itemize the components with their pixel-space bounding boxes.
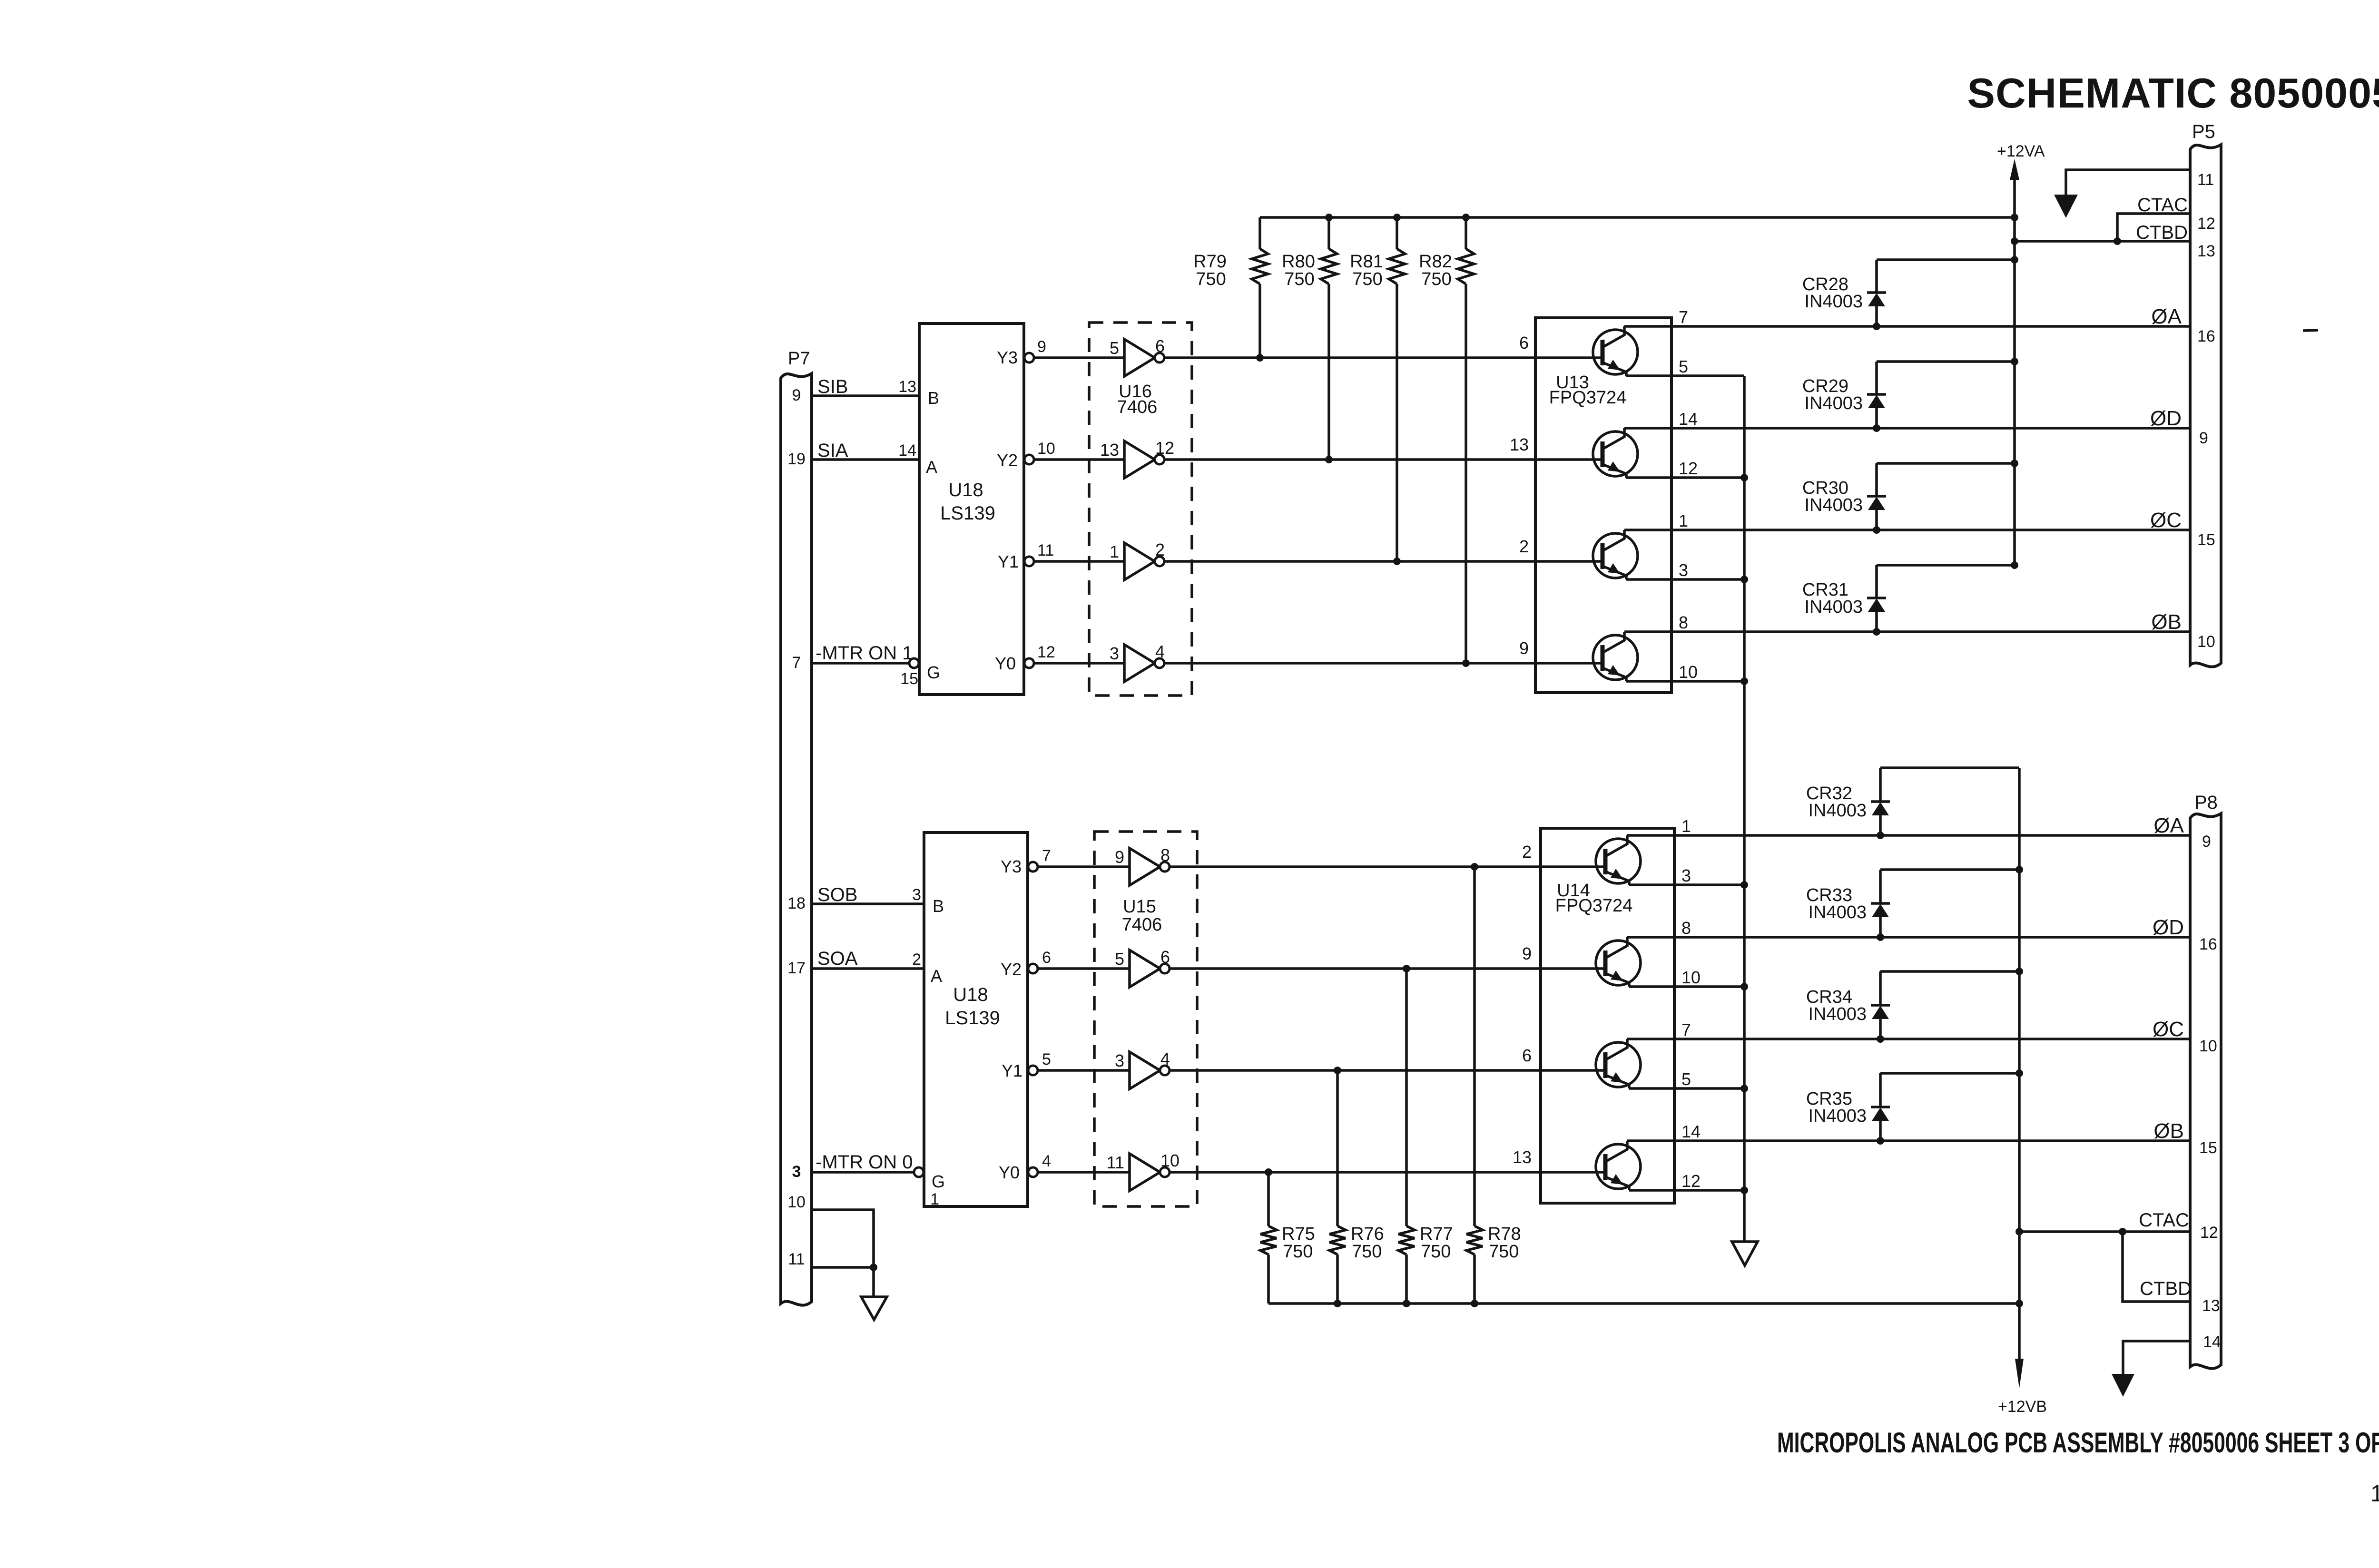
- U18a pin numbers: [898, 338, 1055, 688]
- svg-text:1: 1: [1679, 511, 1688, 530]
- svg-text:5: 5: [1115, 949, 1124, 969]
- svg-text:6: 6: [1519, 333, 1529, 353]
- svg-text:750: 750: [1283, 1242, 1313, 1262]
- U14-b emitter pin: [1681, 968, 1701, 987]
- page number: [2370, 1481, 2379, 1507]
- junction R75 top: [1265, 1168, 1272, 1176]
- svg-text:11: 11: [1107, 1153, 1124, 1172]
- svg-text:7: 7: [792, 654, 801, 672]
- wire P7 pin11: [812, 1266, 874, 1269]
- svg-text:3: 3: [1681, 866, 1691, 885]
- svg-text:2: 2: [1522, 842, 1532, 862]
- U14-d emitter pin: [1681, 1171, 1701, 1191]
- U18a Y2 output bubble: [1024, 455, 1034, 464]
- diode CR31: [1802, 565, 1886, 632]
- svg-text:U18: U18: [953, 984, 988, 1005]
- svg-text:CTAC: CTAC: [2139, 1210, 2189, 1231]
- wire SOA: [812, 967, 924, 970]
- wire U14-a emitter: [1629, 883, 1744, 886]
- svg-text:7: 7: [1042, 847, 1051, 865]
- svg-text:11: 11: [1037, 541, 1054, 559]
- wire U13-b emitter: [1626, 476, 1744, 479]
- svg-text:750: 750: [1421, 1242, 1451, 1262]
- wire U18a Y0 to U16 input: [1034, 662, 1124, 665]
- inverter U16-a: [1124, 339, 1164, 376]
- P5 phase labels: [2150, 305, 2182, 634]
- wire to ground P7: [872, 1267, 875, 1297]
- U14-a collector pin: [1681, 816, 1691, 836]
- svg-text:B: B: [928, 388, 939, 408]
- svg-text:IN4003: IN4003: [1804, 495, 1863, 515]
- U18a Y1 output bubble: [1024, 557, 1034, 566]
- transistor U14-b: [1596, 937, 1641, 987]
- wire U18b Y0 to U15 input: [1038, 1171, 1130, 1174]
- junction CR34 anode: [1877, 1035, 1884, 1043]
- svg-text:6: 6: [1160, 947, 1170, 967]
- hex inverter U15 (dashed outline): [1094, 832, 1197, 1206]
- svg-text:B: B: [933, 896, 944, 916]
- junction CR33 anode: [1877, 933, 1884, 941]
- transistor array U14 (box): [1541, 828, 1674, 1203]
- U13-d emitter pin: [1679, 662, 1698, 682]
- wire -MTR ON 1: [812, 662, 909, 665]
- resistor R78: [1466, 867, 1521, 1303]
- node CTBD (P5): [2136, 222, 2188, 243]
- svg-text:12: 12: [2200, 1224, 2218, 1242]
- junction CR30 anode: [1873, 526, 1880, 534]
- U14-b collector pin: [1681, 918, 1691, 938]
- wire CR34 cathode to +12VB: [1880, 970, 2019, 973]
- inverter U16-d: [1124, 645, 1164, 682]
- svg-text:6: 6: [1042, 949, 1051, 967]
- svg-text:IN4003: IN4003: [1808, 1106, 1867, 1126]
- wire U18b Y2 to U15 input: [1038, 967, 1130, 970]
- svg-text:G: G: [927, 663, 940, 682]
- svg-text:12: 12: [1679, 459, 1698, 478]
- svg-text:R80: R80: [1282, 252, 1315, 272]
- svg-text:7: 7: [1679, 307, 1688, 327]
- wire U16 output row2 to U13 base: [1164, 458, 1602, 461]
- U13-b base pin: [1510, 435, 1529, 454]
- svg-text:FPQ3724: FPQ3724: [1549, 388, 1627, 408]
- inverter U16-c: [1124, 543, 1164, 580]
- junction CR35 anode: [1877, 1137, 1884, 1145]
- resistor R75: [1260, 1172, 1315, 1303]
- svg-text:3: 3: [912, 886, 921, 904]
- U18a input letters: [926, 388, 940, 682]
- svg-text:ØB: ØB: [2153, 1119, 2184, 1143]
- junction CR31 cathode rail: [2011, 561, 2018, 569]
- P5 pin numbers: [2197, 171, 2215, 651]
- junction R80 top: [1325, 214, 1333, 221]
- U18a G input bubble: [909, 658, 919, 668]
- U14-a base pin: [1522, 842, 1532, 862]
- svg-text:4: 4: [1160, 1049, 1170, 1068]
- wire U13-a collector (ØA) to P5: [1624, 325, 2190, 328]
- wire +12VA resistor bus: [1260, 216, 2015, 219]
- svg-text:10: 10: [1160, 1151, 1180, 1170]
- resistor R82: [1419, 217, 1474, 663]
- svg-text:14: 14: [1679, 409, 1698, 429]
- wire CR35 cathode to +12VB: [1880, 1072, 2019, 1075]
- svg-text:16: 16: [2197, 327, 2215, 345]
- resistor R76: [1329, 1070, 1384, 1303]
- node SIB: [817, 376, 848, 397]
- junction P7 pin11: [870, 1264, 877, 1271]
- wire U16 output row3 to U13 base: [1164, 560, 1602, 563]
- svg-text:12: 12: [1037, 643, 1055, 661]
- svg-text:2: 2: [912, 951, 921, 969]
- hex inverter U16 (dashed outline): [1089, 323, 1192, 696]
- svg-text:R82: R82: [1419, 252, 1452, 272]
- wire U18b Y1 to U15 input: [1038, 1069, 1130, 1072]
- U18b Y3 output bubble: [1028, 862, 1038, 872]
- junction CR32 anode: [1877, 832, 1884, 839]
- wire U18a Y2 to U16 input: [1034, 458, 1124, 461]
- wire U14-c emitter: [1629, 1087, 1744, 1090]
- wire CR31 cathode to +12VA: [1877, 564, 2015, 567]
- junction R80 bottom: [1325, 456, 1333, 463]
- svg-text:10: 10: [2197, 633, 2215, 651]
- svg-text:Y2: Y2: [997, 451, 1018, 470]
- svg-text:2: 2: [1519, 537, 1529, 556]
- diode CR35: [1806, 1073, 1890, 1141]
- wire -MTR ON 0: [812, 1171, 914, 1174]
- U13-c emitter pin: [1679, 560, 1688, 580]
- svg-text:R79: R79: [1193, 252, 1227, 272]
- svg-text:Y0: Y0: [999, 1163, 1020, 1182]
- +12VA supply: [1997, 142, 2045, 564]
- svg-text:6: 6: [1155, 336, 1165, 356]
- svg-text:16: 16: [2199, 935, 2217, 953]
- wire CR30 cathode to +12VA: [1877, 462, 2015, 465]
- svg-text:Y3: Y3: [1001, 857, 1022, 876]
- svg-text:15: 15: [2199, 1139, 2217, 1157]
- wire U16 output row4 to U13 base: [1164, 662, 1602, 665]
- wire U14-a collector (ØA) to P8: [1627, 834, 2190, 837]
- U18b G input bubble: [914, 1167, 924, 1177]
- wire U14-c collector (ØC) to P8: [1627, 1038, 2190, 1040]
- svg-text:10: 10: [1037, 440, 1055, 458]
- svg-text:1: 1: [1110, 542, 1119, 561]
- junction CTAC jog top: [2119, 1228, 2126, 1235]
- ground (emitters): [1732, 1242, 1758, 1265]
- junction CTAC/CTBD P5: [2114, 237, 2121, 245]
- transistor array U13 (box): [1535, 318, 1671, 693]
- P7 pin numbers: [787, 386, 806, 1268]
- junction CR35 cathode rail: [2015, 1069, 2023, 1077]
- inverter U15-a: [1130, 848, 1170, 885]
- wire U18b Y3 to U15 input: [1038, 865, 1130, 868]
- junction CR28 cathode rail: [2011, 256, 2018, 264]
- svg-text:ØA: ØA: [2151, 305, 2182, 328]
- svg-text:10: 10: [787, 1193, 806, 1211]
- svg-text:14: 14: [2203, 1333, 2221, 1351]
- svg-text:IN4003: IN4003: [1808, 1004, 1867, 1024]
- wire P8 pin14 (+12V in): [2123, 1341, 2190, 1374]
- wire CTAC P5: [2117, 214, 2190, 241]
- node SOA: [817, 948, 858, 969]
- wire U13-c emitter: [1626, 578, 1744, 581]
- ground (P7): [861, 1297, 887, 1320]
- svg-text:750: 750: [1489, 1242, 1519, 1262]
- connector P8: [2190, 792, 2221, 1369]
- U16-d pin numbers: [1110, 642, 1165, 663]
- junction R82 bottom: [1462, 659, 1470, 667]
- svg-text:750: 750: [1352, 1242, 1382, 1262]
- U13-d collector pin: [1679, 613, 1688, 632]
- wire CR29 cathode to +12VA: [1877, 360, 2015, 363]
- svg-text:12: 12: [2197, 215, 2215, 233]
- svg-text:Y2: Y2: [1001, 960, 1022, 979]
- wire CTAC P8: [2019, 1230, 2190, 1233]
- svg-text:MICROPOLIS ANALOG PCB ASSEMBLY: MICROPOLIS ANALOG PCB ASSEMBLY #8050006 …: [1777, 1427, 2379, 1459]
- svg-text:-MTR ON 1: -MTR ON 1: [816, 643, 913, 664]
- junction R81 bottom: [1393, 558, 1401, 565]
- U13-a collector pin: [1679, 307, 1688, 327]
- wire U13-a emitter: [1626, 374, 1744, 377]
- svg-text:7406: 7406: [1122, 915, 1162, 935]
- svg-text:9: 9: [792, 386, 801, 404]
- U13-d base pin: [1519, 638, 1529, 658]
- svg-text:11: 11: [2197, 171, 2214, 189]
- svg-text:11: 11: [788, 1250, 805, 1268]
- decoder U18 (bottom half): [924, 833, 1028, 1206]
- svg-text:8: 8: [1679, 613, 1688, 632]
- U14-c base pin: [1522, 1046, 1532, 1065]
- wire CTBD P5: [2015, 240, 2190, 243]
- junction R77 bottom: [1403, 1300, 1410, 1307]
- svg-text:Y0: Y0: [995, 654, 1016, 673]
- svg-text:SCHEMATIC 8050005: SCHEMATIC 8050005: [1967, 69, 2379, 117]
- wire U16 output row1 to U13 base: [1164, 356, 1602, 359]
- junction R78 top: [1471, 863, 1478, 871]
- svg-text:12: 12: [1681, 1171, 1701, 1191]
- svg-text:14: 14: [898, 441, 916, 460]
- svg-text:SIA: SIA: [817, 440, 848, 461]
- junction R76 bottom: [1334, 1300, 1341, 1307]
- U13-c base pin: [1519, 537, 1529, 556]
- svg-text:15: 15: [900, 670, 918, 688]
- svg-text:9: 9: [1522, 944, 1532, 963]
- svg-text:13: 13: [1510, 435, 1529, 454]
- transistor U13-b: [1593, 428, 1638, 478]
- U15-d pin numbers: [1107, 1151, 1180, 1172]
- junction R76 top: [1334, 1067, 1341, 1074]
- junction CR29 cathode rail: [2011, 358, 2018, 365]
- svg-text:P7: P7: [788, 349, 810, 369]
- junction R79 bottom: [1256, 354, 1264, 362]
- wire CR28 cathode to +12VA: [1877, 258, 2015, 261]
- svg-text:1: 1: [930, 1190, 939, 1208]
- footer text: [1777, 1427, 2379, 1459]
- wire U15 output row3 to U14 base: [1170, 1069, 1605, 1072]
- svg-text:+12VB: +12VB: [1998, 1398, 2047, 1416]
- wire SIA: [812, 458, 919, 461]
- wire CR33 cathode to +12VB: [1880, 868, 2019, 871]
- svg-text:9: 9: [1519, 638, 1529, 658]
- wire U14-d collector (ØB) to P8: [1627, 1139, 2190, 1142]
- wire U14-b collector (ØD) to P8: [1627, 936, 2190, 939]
- off-page arrow (P5 +12V): [2054, 195, 2078, 218]
- wire CR32 cathode to +12VB: [1880, 766, 2019, 769]
- svg-text:12: 12: [1155, 438, 1174, 458]
- svg-text:R78: R78: [1488, 1224, 1521, 1244]
- connector P5: [2190, 121, 2221, 667]
- svg-text:10: 10: [1679, 662, 1698, 682]
- resistor R80: [1282, 217, 1337, 460]
- svg-text:R77: R77: [1420, 1224, 1453, 1244]
- junction emitters U14: [1740, 881, 1748, 1194]
- svg-text:ØD: ØD: [2153, 916, 2184, 939]
- wire U18a Y3 to U16 input: [1034, 356, 1124, 359]
- U13-a emitter pin: [1679, 357, 1688, 376]
- +12VB supply: [1998, 768, 2047, 1416]
- svg-text:Y1: Y1: [998, 552, 1019, 571]
- svg-text:1: 1: [1681, 816, 1691, 836]
- node SOB: [817, 884, 857, 905]
- svg-text:7406: 7406: [1117, 397, 1158, 417]
- svg-text:8: 8: [1160, 845, 1170, 865]
- svg-text:4: 4: [1042, 1152, 1051, 1170]
- title text: [1967, 69, 2379, 117]
- U18a Y3 output bubble: [1024, 353, 1034, 363]
- svg-text:6: 6: [1522, 1046, 1532, 1065]
- U15-b pin numbers: [1115, 947, 1170, 969]
- transistor U13-d: [1593, 632, 1638, 681]
- svg-text:13: 13: [2202, 1297, 2220, 1315]
- wire P7 pin10 jog: [812, 1210, 874, 1267]
- svg-text:750: 750: [1352, 269, 1382, 289]
- svg-text:ØC: ØC: [2153, 1018, 2184, 1041]
- wire +12VB resistor bus (CTBD rail): [1268, 1302, 2019, 1305]
- node CTAC (P8): [2139, 1210, 2189, 1231]
- svg-text:IN4003: IN4003: [1804, 393, 1863, 413]
- svg-text:U18: U18: [948, 480, 983, 500]
- svg-text:4: 4: [1155, 642, 1165, 661]
- junction CR34 cathode rail: [2015, 968, 2023, 975]
- junction emitters U13: [1740, 474, 1748, 685]
- svg-text:IN4003: IN4003: [1808, 801, 1867, 821]
- node SIA: [817, 440, 848, 461]
- U15-a pin numbers: [1115, 845, 1170, 867]
- svg-text:Y3: Y3: [997, 348, 1018, 367]
- inverter U15-b: [1130, 950, 1170, 987]
- svg-text:A: A: [931, 966, 942, 986]
- wire U18a Y1 to U16 input: [1034, 560, 1124, 563]
- junction R77 top: [1403, 965, 1410, 972]
- U14-d collector pin: [1681, 1122, 1701, 1141]
- svg-text:Y1: Y1: [1002, 1061, 1022, 1080]
- transistor U13-a: [1593, 326, 1638, 376]
- svg-text:10: 10: [2199, 1037, 2217, 1055]
- wire CTAC/CTBD jog P8: [2123, 1232, 2190, 1302]
- U13-c collector pin: [1679, 511, 1688, 530]
- transistor U14-a: [1596, 835, 1641, 885]
- svg-text:10: 10: [1681, 968, 1701, 987]
- resistor R81: [1350, 217, 1405, 561]
- svg-text:3: 3: [1679, 560, 1688, 580]
- svg-text:14: 14: [1681, 1122, 1701, 1141]
- svg-text:SOA: SOA: [817, 948, 858, 969]
- svg-text:3: 3: [1110, 644, 1119, 663]
- U14-d base pin: [1513, 1147, 1532, 1167]
- svg-text:750: 750: [1196, 269, 1226, 289]
- U15-c pin numbers: [1115, 1049, 1170, 1070]
- svg-text:P5: P5: [2192, 121, 2215, 142]
- transistor U14-c: [1596, 1039, 1641, 1088]
- U13-b collector pin: [1679, 409, 1698, 429]
- U18b Y0 output bubble: [1028, 1167, 1038, 1177]
- svg-text:U15: U15: [1123, 897, 1156, 917]
- svg-text:750: 750: [1284, 269, 1314, 289]
- junction CR29 anode: [1873, 424, 1880, 432]
- svg-text:5: 5: [1679, 357, 1688, 376]
- node -MTR ON 0: [816, 1152, 913, 1173]
- transistor U14-d: [1596, 1141, 1641, 1190]
- svg-text:LS139: LS139: [945, 1008, 1000, 1029]
- wire U13-c collector (ØC) to P5: [1624, 529, 2190, 531]
- svg-text:+12VA: +12VA: [1997, 142, 2045, 160]
- inverter U15-d: [1130, 1154, 1170, 1191]
- wire U15 output row4 to U14 base: [1170, 1171, 1605, 1174]
- U16-a pin numbers: [1110, 336, 1165, 358]
- inverter U16-b: [1124, 441, 1164, 478]
- junction R82 top: [1462, 214, 1470, 221]
- junction CR33 cathode rail: [2015, 866, 2023, 873]
- svg-text:13: 13: [1100, 440, 1119, 460]
- svg-text:A: A: [926, 457, 937, 477]
- svg-text:IN4003: IN4003: [1804, 597, 1863, 617]
- U18b input letters: [931, 896, 945, 1191]
- svg-text:750: 750: [1421, 269, 1451, 289]
- svg-text:FPQ3724: FPQ3724: [1555, 896, 1633, 916]
- svg-text:18: 18: [787, 894, 806, 912]
- svg-text:IN4003: IN4003: [1808, 902, 1867, 922]
- node CTAC (P5): [2137, 195, 2188, 216]
- svg-text:15: 15: [2197, 531, 2215, 549]
- svg-text:9: 9: [2199, 429, 2208, 447]
- svg-text:P8: P8: [2194, 792, 2218, 813]
- wire U14-b emitter: [1629, 985, 1744, 988]
- junction CR31 anode: [1873, 628, 1880, 636]
- wire P5 pin11 (+12V in): [2066, 170, 2190, 195]
- diode CR33: [1806, 870, 1890, 937]
- junction R81 top: [1393, 214, 1401, 221]
- wire SIB: [812, 394, 919, 397]
- U18a output letters: [995, 348, 1019, 673]
- svg-text:17: 17: [787, 959, 806, 977]
- svg-text:R76: R76: [1351, 1224, 1384, 1244]
- svg-text:9: 9: [2202, 833, 2211, 851]
- svg-text:5: 5: [1110, 338, 1119, 358]
- U13-b emitter pin: [1679, 459, 1698, 478]
- svg-text:2: 2: [1155, 540, 1165, 559]
- resistor R77: [1398, 969, 1453, 1303]
- svg-text:ØC: ØC: [2150, 509, 2182, 532]
- U14-b base pin: [1522, 944, 1532, 963]
- svg-text:ØD: ØD: [2150, 407, 2182, 430]
- junction CR30 cathode rail: [2011, 460, 2018, 467]
- off-page arrow (P8 +12V): [2112, 1374, 2134, 1397]
- U13-a base pin: [1519, 333, 1529, 353]
- connector P7: [781, 349, 812, 1305]
- wire U13-b collector (ØD) to P5: [1624, 427, 2190, 430]
- node -MTR ON 1: [816, 643, 913, 664]
- node CTBD (P8): [2140, 1278, 2192, 1299]
- svg-text:R75: R75: [1282, 1224, 1315, 1244]
- wire U13-d emitter: [1626, 680, 1744, 683]
